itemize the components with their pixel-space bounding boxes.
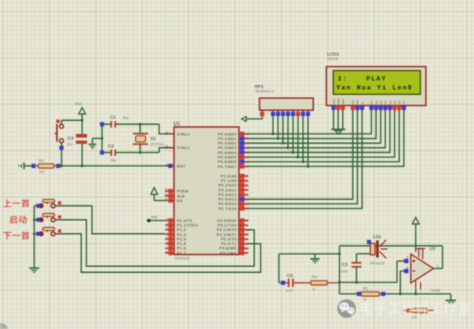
wire P2.6 to LCD RW xyxy=(248,110,357,204)
label 上一首 xyxy=(3,199,29,207)
capacitor C2 xyxy=(100,143,159,162)
svg-text:LM016L: LM016L xyxy=(327,57,339,61)
ground (amplifier) xyxy=(446,300,456,304)
wire LCD VSS/VDD/VEE down xyxy=(334,110,343,129)
svg-text:C2: C2 xyxy=(108,143,114,148)
speaker LS1 xyxy=(367,234,388,265)
resistor pack RP1 RESPACK-8 xyxy=(255,84,313,166)
svg-text:17: 17 xyxy=(245,251,249,255)
svg-text:P1.6: P1.6 xyxy=(177,247,186,251)
wire VCC rail to reset button xyxy=(62,119,84,122)
svg-text:24: 24 xyxy=(245,188,249,192)
wire P0.1 to LCD D1 xyxy=(248,110,376,139)
resistor R1 xyxy=(357,286,386,301)
resistor R8 xyxy=(32,159,61,174)
wire P0.5 to LCD D5 xyxy=(248,110,395,157)
svg-text:5: 5 xyxy=(166,235,168,239)
svg-text:ALE: ALE xyxy=(177,194,185,198)
svg-text:P2.3/A11: P2.3/A11 xyxy=(219,188,237,192)
wire C4 bottom to RST net xyxy=(81,144,83,166)
svg-text:P3.5/T1: P3.5/T1 xyxy=(221,242,236,246)
wire C3 top to speaker bottom xyxy=(357,253,373,255)
svg-text:18: 18 xyxy=(165,144,169,148)
push button (reset) xyxy=(55,120,64,143)
svg-text:U3: U3 xyxy=(430,246,436,251)
watermark fragment (bottom-left) xyxy=(0,323,8,329)
svg-text:EA: EA xyxy=(177,199,183,203)
svg-text:10k: 10k xyxy=(412,315,418,319)
svg-text:P1.7: P1.7 xyxy=(177,251,186,255)
svg-text:VDD: VDD xyxy=(336,98,340,104)
svg-text:P2.2/A10: P2.2/A10 xyxy=(218,184,236,188)
node RST pin marker xyxy=(168,163,176,168)
wire buttons common vertical xyxy=(33,206,36,268)
svg-text:14: 14 xyxy=(245,237,249,241)
wire C1/C2 left vertical xyxy=(101,124,104,152)
svg-text:C3: C3 xyxy=(342,262,348,267)
label 下一首 xyxy=(3,231,29,239)
resistor R3 10k xyxy=(403,308,434,319)
svg-text:P0.2/AD2: P0.2/AD2 xyxy=(218,142,237,146)
wire P3.7-node to zobel ground rail xyxy=(279,253,341,256)
terminal P10 (P1.0 net label) xyxy=(147,216,165,223)
ground (left of R8, rotated) xyxy=(19,163,24,170)
svg-text:LS1: LS1 xyxy=(373,234,382,239)
ground (LCD supply pins) xyxy=(331,129,345,134)
svg-text:P1.1/T2EX: P1.1/T2EX xyxy=(177,224,198,228)
svg-text:47nF: 47nF xyxy=(286,289,293,293)
svg-text:6: 6 xyxy=(166,240,168,244)
wire button bottom to RST net xyxy=(59,143,63,166)
wire P0.7 to LCD D7 xyxy=(248,110,404,166)
svg-text:4: 4 xyxy=(166,231,168,235)
wire rail to ground xyxy=(450,294,452,301)
svg-text:P1.4: P1.4 xyxy=(177,237,186,241)
svg-text:P3.3/INT1: P3.3/INT1 xyxy=(217,233,237,237)
svg-text:P2.0/A8: P2.0/A8 xyxy=(221,174,237,178)
svg-text:P0.6/AD6: P0.6/AD6 xyxy=(218,160,237,164)
svg-text:30p: 30p xyxy=(110,158,116,162)
resistor R4 xyxy=(311,275,340,292)
svg-text:29: 29 xyxy=(165,188,169,192)
svg-text:P2.1/A9: P2.1/A9 xyxy=(221,179,237,183)
svg-text:XTAL2: XTAL2 xyxy=(177,146,190,150)
svg-text:PLAY: PLAY xyxy=(366,75,386,82)
svg-text:U1: U1 xyxy=(174,121,181,127)
svg-text:10: 10 xyxy=(245,219,249,223)
svg-text:3: 3 xyxy=(166,226,168,230)
wire down to C5 xyxy=(278,254,280,283)
svg-text:16: 16 xyxy=(245,247,249,251)
svg-text:D1: D1 xyxy=(374,100,378,104)
svg-text:100: 100 xyxy=(39,170,45,174)
svg-text:E: E xyxy=(360,102,364,104)
svg-text:P3.2/INT0: P3.2/INT0 xyxy=(217,228,237,232)
svg-text:10: 10 xyxy=(312,288,316,292)
svg-text:100u: 100u xyxy=(341,270,348,274)
wire P0.0 to LCD D0 xyxy=(248,110,371,134)
svg-text:VEE: VEE xyxy=(341,99,345,105)
svg-text:C5: C5 xyxy=(287,273,293,278)
svg-text:P3.7/RD: P3.7/RD xyxy=(220,251,236,255)
wire ground to R8 xyxy=(24,165,34,167)
ground (buttons) xyxy=(29,268,39,272)
svg-text:X1: X1 xyxy=(150,136,156,141)
wire P0.4 to LCD D4 xyxy=(248,110,390,152)
ground (zobel rail) xyxy=(310,254,319,263)
wire op-amp -input to bottom rail xyxy=(400,271,404,294)
wire RST net xyxy=(58,165,168,168)
watermark (WeChat logo + studio name) xyxy=(337,299,471,318)
svg-text:D7: D7 xyxy=(402,100,406,104)
svg-text:SPEAKER: SPEAKER xyxy=(370,261,386,265)
wire op-amp output to speaker rail xyxy=(434,246,443,269)
microcontroller U1 AT89S52 xyxy=(165,121,249,260)
svg-text:P0.3/AD3: P0.3/AD3 xyxy=(218,146,237,150)
svg-text:9: 9 xyxy=(166,162,168,166)
wire output top rail to speaker xyxy=(340,245,443,247)
svg-text:RS: RS xyxy=(351,100,355,104)
wire op-amp GND pin to rail xyxy=(415,289,417,294)
svg-text:1k: 1k xyxy=(363,298,367,302)
power flag VCC (reset circuit) xyxy=(75,102,86,114)
svg-text:P0.5/AD5: P0.5/AD5 xyxy=(218,156,237,160)
svg-text:AT89S52: AT89S52 xyxy=(175,257,190,261)
svg-text:RP1: RP1 xyxy=(255,84,264,89)
push button KEY2 (start) xyxy=(34,213,61,221)
svg-text:2: 2 xyxy=(166,222,168,226)
svg-text:22: 22 xyxy=(245,179,249,183)
svg-text:P2.5/A13: P2.5/A13 xyxy=(218,198,236,202)
svg-text:30p: 30p xyxy=(123,116,129,120)
svg-text:P1.0/T2: P1.0/T2 xyxy=(177,219,192,223)
svg-text:P10: P10 xyxy=(152,216,158,220)
svg-text:P3.0/RXD: P3.0/RXD xyxy=(217,219,236,223)
wire P2.5 to LCD RS xyxy=(248,110,353,199)
svg-text:C1: C1 xyxy=(110,114,116,119)
wire to XTAL2 xyxy=(159,148,174,153)
capacitor C1 xyxy=(100,114,159,127)
svg-text:P1.2: P1.2 xyxy=(177,228,186,232)
svg-text:31: 31 xyxy=(165,197,169,201)
svg-text:Yan Hua Yi Len9: Yan Hua Yi Len9 xyxy=(336,84,413,91)
svg-text:13: 13 xyxy=(245,233,249,237)
capacitor C3 xyxy=(341,254,362,284)
power flag VCC (amplifier) xyxy=(412,217,419,252)
wire KEY1 to P1.3 xyxy=(55,206,165,234)
svg-text:D6: D6 xyxy=(398,100,402,104)
power flag VCC (EA pin) xyxy=(151,188,165,201)
svg-text:P2.4/A12: P2.4/A12 xyxy=(218,193,236,197)
crystal X1 xyxy=(133,134,165,147)
svg-text:21: 21 xyxy=(245,174,249,178)
wire crystal bottom stub xyxy=(139,144,142,154)
svg-text:P3.1/TXD: P3.1/TXD xyxy=(218,224,237,228)
wire P2.7 to LCD E xyxy=(248,110,362,208)
svg-text:CRYSTAL: CRYSTAL xyxy=(150,142,165,146)
svg-text:D0: D0 xyxy=(370,100,374,104)
wire to XTAL1 xyxy=(159,124,174,134)
svg-text:P0.0/AD0: P0.0/AD0 xyxy=(218,132,237,136)
svg-text:R1: R1 xyxy=(363,286,369,291)
push button KEY3 (next) xyxy=(34,227,61,235)
wire P0.3 to LCD D3 xyxy=(248,110,385,148)
wire VCC stem to C4 xyxy=(81,114,83,134)
LCD display LCD1 LM016L xyxy=(326,51,426,111)
svg-text:VCC: VCC xyxy=(75,102,83,106)
svg-text:P3.6/WR: P3.6/WR xyxy=(219,247,236,251)
svg-text:R8: R8 xyxy=(39,159,44,163)
capacitor C4 xyxy=(67,134,87,147)
wire P0.6 to LCD D6 xyxy=(248,110,399,162)
svg-text:30: 30 xyxy=(165,192,169,196)
svg-text:23: 23 xyxy=(245,183,249,187)
svg-text:RESPACK-8: RESPACK-8 xyxy=(255,90,274,94)
svg-text:P1.3: P1.3 xyxy=(177,233,186,237)
svg-text:RW: RW xyxy=(356,99,360,104)
svg-text:R4: R4 xyxy=(312,275,318,280)
svg-text:LM386: LM386 xyxy=(431,288,441,292)
svg-text:P0.7/AD7: P0.7/AD7 xyxy=(218,165,237,169)
label 启动 xyxy=(10,215,27,223)
svg-text:D5: D5 xyxy=(393,100,397,104)
svg-text:19: 19 xyxy=(165,130,169,134)
wire crystal top stub xyxy=(139,123,142,134)
wire P0.2 to LCD D2 xyxy=(248,110,381,143)
svg-text:10u: 10u xyxy=(67,143,73,147)
svg-text:P3.4/T0: P3.4/T0 xyxy=(221,237,236,241)
wire KEY3 to P3.5 xyxy=(55,234,260,272)
wire button top stub xyxy=(61,120,63,124)
svg-text:C4: C4 xyxy=(68,135,74,140)
svg-text:8: 8 xyxy=(166,249,168,253)
op-amp U3 LM386 xyxy=(404,246,440,292)
svg-text:P2.7/A15: P2.7/A15 xyxy=(218,207,236,211)
junction dots P0 bus xyxy=(272,133,310,168)
svg-text:VSS: VSS xyxy=(332,99,336,105)
svg-text:P1.5: P1.5 xyxy=(177,242,186,246)
capacitor C5 xyxy=(279,273,311,293)
svg-text:P0.1/AD1: P0.1/AD1 xyxy=(218,137,237,141)
svg-text:D2: D2 xyxy=(379,100,383,104)
svg-text:1:: 1: xyxy=(338,75,348,82)
svg-text:PSEN: PSEN xyxy=(177,190,189,194)
wire amp main vertical node xyxy=(338,246,341,294)
wire node to op-amp +input xyxy=(340,261,405,282)
svg-text:P0.4/AD4: P0.4/AD4 xyxy=(218,151,237,155)
wire KEY2 to P3.2 xyxy=(55,220,254,266)
svg-text:D4: D4 xyxy=(388,100,392,104)
push button KEY1 (prev) xyxy=(34,199,61,207)
wire bottom feedback rail xyxy=(340,293,451,296)
terminal (RP1 common, left arrow) xyxy=(242,116,263,121)
svg-text:1: 1 xyxy=(166,217,168,221)
svg-text:7: 7 xyxy=(166,245,168,249)
svg-text:RST: RST xyxy=(177,164,186,168)
ground (crystal caps) xyxy=(89,138,102,148)
svg-text:11: 11 xyxy=(245,223,248,227)
svg-text:25: 25 xyxy=(245,193,249,197)
svg-text:XTAL1: XTAL1 xyxy=(177,132,190,136)
svg-text:P2.6/A14: P2.6/A14 xyxy=(218,202,236,206)
svg-text:D3: D3 xyxy=(384,100,388,104)
